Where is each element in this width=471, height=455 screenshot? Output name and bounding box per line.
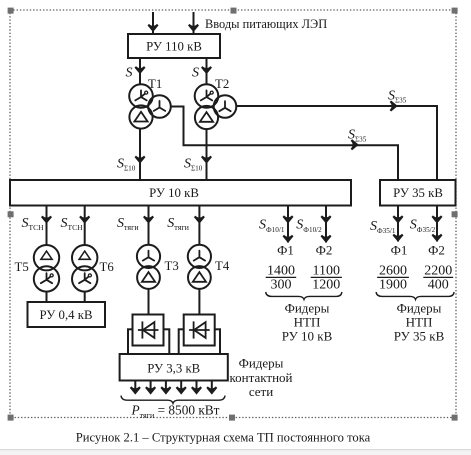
bottom page edge xyxy=(0,450,471,455)
arrow S_sum35 lower xyxy=(351,139,359,150)
wire S_tsn to T5 xyxy=(46,206,48,246)
svg-text:2200: 2200 xyxy=(424,264,452,279)
transformer T6 xyxy=(72,245,97,292)
svg-text:Ф1: Ф1 xyxy=(391,243,408,258)
svg-text:Ф1: Ф1 xyxy=(277,243,294,258)
svg-text:Ф2: Ф2 xyxy=(316,243,333,258)
wire T6 to RU 0.4 xyxy=(84,292,86,303)
svg-text:300: 300 xyxy=(271,278,292,293)
arrows feeder F10/1 double xyxy=(283,215,294,223)
svg-text:сети: сети xyxy=(249,384,273,399)
arrow S_tyagi T4 xyxy=(194,216,205,224)
arrow input LEP 2 xyxy=(188,24,199,32)
svg-text:S: S xyxy=(192,66,199,81)
wire S_tsn to T6 xyxy=(84,206,86,246)
wire S to T1 xyxy=(139,58,141,84)
wire T5 to RU 0.4 xyxy=(46,292,48,303)
wire T3 to rectifier U1 xyxy=(148,289,150,315)
arrow S_tsn T6 xyxy=(79,216,90,224)
bus RU 35 kV xyxy=(380,180,456,206)
wire S_sum35 from T2 right winding to RU35 xyxy=(236,106,437,180)
svg-text:S: S xyxy=(126,66,133,81)
svg-text:РУ 10 кВ: РУ 10 кВ xyxy=(282,329,333,344)
svg-text:РУ 35 кВ: РУ 35 кВ xyxy=(394,329,445,344)
wire feeder F35/1 xyxy=(397,206,399,242)
bus RU 10 kV xyxy=(10,180,351,206)
svg-text:Т2: Т2 xyxy=(215,77,229,91)
wire feeder F35/2 xyxy=(436,206,438,242)
svg-text:Т3: Т3 xyxy=(165,259,179,273)
wire S to T2 xyxy=(206,58,208,84)
arrow S_tsn T5 xyxy=(41,216,52,224)
wire S_sum10 from T2 to RU10 xyxy=(206,129,208,180)
underbrace feeders RU35 xyxy=(376,292,454,299)
rectifier U2 xyxy=(179,315,220,355)
svg-text:НТП: НТП xyxy=(406,314,433,329)
wire S_tyagi to T3 xyxy=(148,206,150,246)
transformer T5 xyxy=(34,245,59,292)
arrows feeder F35/2 double xyxy=(432,215,443,223)
svg-text:Т6: Т6 xyxy=(100,260,115,274)
wire feeder F10/2 xyxy=(325,206,327,243)
arrow input LEP 1 xyxy=(148,24,159,32)
svg-text:1400: 1400 xyxy=(267,264,295,279)
svg-text:Т1: Т1 xyxy=(148,77,162,91)
wire S_tyagi to T4 xyxy=(198,206,200,246)
svg-text:1900: 1900 xyxy=(379,278,407,293)
wire input LEP 1 xyxy=(152,12,154,33)
wire feeder F10/1 xyxy=(287,206,289,243)
arrows feeder F10/2 double xyxy=(321,215,332,223)
arrow S_sum10 T1 xyxy=(135,156,146,164)
arrow S_tyagi T3 xyxy=(143,216,154,224)
arrow S_sum35 upper xyxy=(390,101,398,112)
svg-text:РУ 110 кВ: РУ 110 кВ xyxy=(146,40,202,54)
wire S_sum35 from T1 right winding to RU35 xyxy=(171,107,398,181)
underbrace feeders RU10 xyxy=(266,292,342,299)
svg-text:1200: 1200 xyxy=(312,278,340,293)
bus RU 110 kV xyxy=(128,34,220,58)
svg-text:2600: 2600 xyxy=(379,264,407,279)
transformer T4 xyxy=(188,245,211,289)
transformer T2 xyxy=(195,84,237,129)
rectifier U1 xyxy=(128,315,169,355)
svg-text:Ф2: Ф2 xyxy=(428,243,445,258)
svg-text:контактной: контактной xyxy=(230,370,293,385)
svg-text:Т5: Т5 xyxy=(15,260,29,274)
wire T4 to rectifier U2 xyxy=(198,289,200,315)
svg-text:Фидеры: Фидеры xyxy=(239,356,284,371)
arrow S to T1 xyxy=(135,66,146,74)
transformer T3 xyxy=(137,245,160,289)
svg-text:Рисунок 2.1 – Структурная схем: Рисунок 2.1 – Структурная схема ТП посто… xyxy=(76,431,371,445)
svg-text:НТП: НТП xyxy=(294,314,321,329)
bus RU 0.4 kV xyxy=(28,302,106,327)
wire S_sum10 from T1 to RU10 xyxy=(139,129,141,180)
svg-text:1100: 1100 xyxy=(313,264,340,279)
arrow S_sum10 T2 xyxy=(201,156,212,164)
six contact network feeder arrows xyxy=(135,381,212,393)
underbrace contact network xyxy=(121,396,225,404)
svg-text:РУ 0,4 кВ: РУ 0,4 кВ xyxy=(39,308,92,322)
bus RU 3.3 kV xyxy=(120,354,228,381)
svg-text:РУ 3,3 кВ: РУ 3,3 кВ xyxy=(147,361,200,375)
svg-text:РУ 35 кВ: РУ 35 кВ xyxy=(393,186,443,200)
arrows feeder F35/1 double xyxy=(393,215,404,223)
arrow S to T2 xyxy=(201,66,212,74)
svg-text:Т4: Т4 xyxy=(215,259,230,273)
svg-text:Вводы питающих ЛЭП: Вводы питающих ЛЭП xyxy=(205,17,327,31)
svg-text:400: 400 xyxy=(428,278,449,293)
svg-text:РУ 10 кВ: РУ 10 кВ xyxy=(149,186,199,200)
wire input LEP 2 xyxy=(193,12,195,33)
transformer T1 xyxy=(129,84,171,128)
arrowheads on wires xyxy=(41,24,443,243)
